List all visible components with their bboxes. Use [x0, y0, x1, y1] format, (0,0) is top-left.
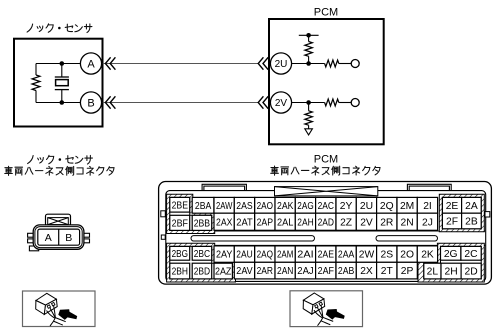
PCM connector inner shell [166, 191, 486, 282]
pin 2BF [170, 215, 190, 230]
connector chevrons on wire B, sensor side [105, 96, 110, 108]
knock sensor connector photo box [23, 291, 96, 327]
svg-text:2AM: 2AM [277, 250, 293, 261]
wire: knock sensor internal bottom [36, 102, 80, 104]
pin 2M [397, 197, 417, 213]
pin 2E [442, 197, 461, 213]
pin 2AL [275, 213, 295, 230]
svg-text:2B: 2B [465, 217, 478, 228]
pull-up resistor (2U net) [305, 42, 312, 57]
wire: knock sensor internal left leg [35, 64, 37, 103]
svg-text:2I: 2I [423, 201, 432, 212]
pin 2AJ [295, 262, 315, 279]
svg-text:2S: 2S [380, 250, 393, 261]
svg-text:2AY: 2AY [216, 250, 233, 261]
wire A (knock sensor A to PCM 2U) [103, 63, 258, 65]
svg-text:2P: 2P [401, 266, 414, 277]
svg-text:2U: 2U [275, 59, 288, 70]
svg-text:2AP: 2AP [257, 217, 274, 228]
knock sensor harness connector: bottom foot [29, 246, 38, 251]
svg-text:2AQ: 2AQ [257, 250, 273, 261]
svg-text:2AX: 2AX [216, 217, 233, 228]
pin 2B [462, 213, 482, 229]
knock sensor title text [27, 24, 92, 33]
pin 2BC [192, 246, 212, 260]
hatched keying block B (around pins 2E/2A/2F/2B) [439, 194, 484, 231]
pin 2AW [214, 197, 234, 213]
pin 2AM [275, 246, 295, 262]
svg-text:2AR: 2AR [257, 266, 273, 277]
series resistor on 2U net [325, 60, 339, 67]
wire: pull-up resistor stubs [308, 35, 310, 63]
svg-text:PCM: PCM [314, 6, 338, 18]
wire: piezo branch [61, 64, 63, 103]
pin 2P [397, 262, 417, 279]
cavity divider [58, 229, 60, 245]
svg-text:2G: 2G [444, 249, 458, 260]
connector removal icon (PCM) [303, 293, 333, 326]
svg-text:2A: 2A [465, 201, 478, 212]
pin 2C [461, 246, 481, 260]
pin 2Y [336, 197, 356, 213]
connector chevrons on wire A, sensor side [105, 57, 110, 69]
svg-text:2BD: 2BD [194, 267, 210, 278]
pin 2AV [234, 262, 254, 279]
pin 2BD [192, 263, 212, 279]
svg-text:PCM: PCM [314, 153, 338, 165]
svg-text:2V: 2V [360, 217, 373, 228]
pin 2AF [316, 262, 336, 279]
power rail junction dot [306, 33, 311, 38]
svg-text:2AT: 2AT [236, 217, 253, 228]
cavity band slot right [376, 236, 438, 241]
pin 2AB [336, 262, 356, 279]
svg-text:2F: 2F [446, 217, 458, 228]
svg-text:2AO: 2AO [257, 201, 273, 212]
PCM pin 2U [270, 53, 291, 74]
svg-text:2Z: 2Z [340, 217, 352, 228]
svg-text:2X: 2X [360, 266, 373, 277]
svg-text:2U: 2U [360, 201, 373, 212]
PCM connector center key (crossed) [275, 187, 378, 196]
svg-text:2N: 2N [401, 217, 414, 228]
pin 2H [441, 263, 461, 279]
pin 2Z [336, 213, 356, 230]
pin 2AI [295, 246, 315, 262]
pin 2AU [234, 246, 254, 262]
open terminal circle (2U net) [351, 60, 359, 68]
pin 2W [356, 246, 376, 262]
hatched keying block D (around pins 2G/2C/2L/2H/2D) [418, 243, 484, 282]
pin 2N [397, 213, 417, 230]
svg-text:2BA: 2BA [195, 201, 212, 212]
piezoelectric element [55, 77, 69, 90]
pin 2AE [316, 246, 336, 262]
node dot on 2V net [306, 100, 311, 105]
node dot on 2U net [306, 61, 311, 66]
pin 2L [424, 263, 441, 279]
svg-text:2J: 2J [422, 217, 433, 228]
pin 2AR [255, 262, 275, 279]
pin 2AY [214, 246, 234, 262]
pin 2A [462, 197, 482, 213]
PCM connector left edge notches [161, 211, 166, 240]
pin 2AS [234, 197, 254, 213]
svg-text:2AI: 2AI [297, 250, 313, 261]
junction dot top [60, 61, 65, 66]
pin 2O [397, 246, 417, 262]
svg-text:2BH: 2BH [172, 267, 188, 278]
wire: knock sensor internal top [36, 63, 80, 65]
pin 2AC [316, 197, 336, 213]
svg-text:2AB: 2AB [338, 266, 355, 277]
svg-text:2C: 2C [464, 249, 478, 260]
svg-text:2O: 2O [400, 250, 414, 261]
pin 2K [417, 246, 437, 262]
svg-text:2AU: 2AU [236, 250, 252, 261]
svg-text:2BC: 2BC [194, 249, 211, 260]
PCM connector photo box [290, 291, 363, 327]
svg-text:B: B [87, 97, 94, 109]
knock sensor harness connector body [33, 225, 84, 249]
pin 2AN [275, 262, 295, 279]
hatched keying block C (around pins 2BG/2BC/2BH/2BD/2AZ) [167, 243, 236, 282]
pin 2D [461, 263, 481, 279]
svg-text:2AK: 2AK [277, 201, 294, 212]
pin 2V [356, 213, 376, 230]
svg-text:2AH: 2AH [297, 217, 313, 228]
svg-text:B: B [65, 232, 72, 244]
knock sensor pin B [80, 92, 101, 113]
knock sensor harness cavity frame [38, 229, 80, 245]
knock sensor harness connector: left side tabs [28, 233, 34, 242]
svg-text:2BG: 2BG [172, 249, 188, 260]
pin 2BB [192, 215, 212, 230]
pin 2BH [170, 263, 190, 279]
PCM pin 2V [270, 92, 291, 113]
pin 2AZ [214, 263, 232, 279]
svg-text:2K: 2K [421, 250, 434, 261]
svg-text:2T: 2T [381, 266, 394, 277]
pin 2AX [214, 213, 234, 230]
svg-text:2AJ: 2AJ [297, 266, 313, 277]
svg-text:2M: 2M [400, 201, 414, 212]
series resistor on 2V net [325, 99, 339, 106]
wire B (knock sensor B to PCM 2V) [103, 102, 258, 104]
svg-text:2AA: 2AA [338, 250, 355, 261]
knock sensor pin A [80, 53, 101, 74]
pin 2T [377, 262, 397, 279]
wire: 2V node to ground resistor [308, 103, 310, 129]
pin 2BE [170, 197, 190, 212]
svg-text:2AC: 2AC [318, 201, 335, 212]
svg-text:A: A [87, 58, 95, 70]
PCM connector right edge notch [485, 212, 490, 217]
pin 2R [377, 213, 397, 230]
knock sensor box [14, 39, 103, 127]
resistor (knock sensor internal) [32, 75, 40, 91]
svg-text:2L: 2L [427, 267, 439, 278]
connector chevrons on wire B, PCM side [258, 96, 263, 108]
wire: resistor to terminal 2U [339, 63, 351, 65]
wire: 2V to node [292, 102, 325, 104]
hatched keying block A (around pins 2BE/2BF/2BB) [167, 194, 215, 233]
pin 2I [417, 197, 437, 213]
svg-text:2AD: 2AD [318, 217, 334, 228]
pin 2BG [170, 246, 190, 260]
junction dot bottom [60, 100, 65, 105]
knock sensor harness connector: right side tabs [83, 233, 90, 242]
PCM connector outer shell [159, 182, 492, 285]
PCM vehicle harness side connector label [271, 166, 380, 175]
svg-text:2R: 2R [380, 217, 393, 228]
svg-text:2AS: 2AS [236, 201, 253, 212]
ground symbol [305, 129, 313, 135]
wire: 2U to node [292, 63, 325, 65]
svg-text:2AG: 2AG [297, 201, 313, 212]
pin 2BA [192, 197, 214, 213]
pin 2AD [316, 213, 336, 230]
pin 2AK [275, 197, 295, 213]
svg-text:2V: 2V [275, 98, 288, 109]
PCM connector top tab left [202, 184, 246, 191]
pin 2X [356, 262, 376, 279]
pin 2AH [295, 213, 315, 230]
pin 2AO [255, 197, 275, 213]
svg-text:2AV: 2AV [236, 266, 253, 277]
PCM connector top tab right [407, 184, 451, 191]
svg-text:2Y: 2Y [340, 201, 353, 212]
cavity band divider lines [166, 231, 485, 245]
resistor to ground (2V net) [305, 111, 312, 125]
pin 2AQ [255, 246, 275, 262]
svg-text:2AZ: 2AZ [215, 267, 231, 278]
svg-text:2BB: 2BB [194, 219, 211, 230]
svg-text:2AW: 2AW [216, 201, 233, 212]
knock sensor harness label line 1 [28, 155, 93, 164]
power rail bar [299, 34, 319, 36]
svg-text:2E: 2E [446, 201, 459, 212]
pin 2AA [336, 246, 356, 262]
svg-text:2AE: 2AE [318, 250, 335, 261]
svg-text:2BF: 2BF [172, 219, 188, 230]
svg-text:A: A [45, 232, 52, 244]
svg-text:2H: 2H [445, 267, 458, 278]
connector removal icon (knock sensor) [36, 293, 66, 326]
svg-text:2W: 2W [359, 250, 375, 261]
open terminal circle (2V net) [351, 99, 359, 107]
svg-text:2AF: 2AF [318, 266, 334, 277]
cavity band slot left [191, 236, 315, 241]
pin 2AG [295, 197, 315, 213]
pin 2S [377, 246, 397, 262]
svg-text:2AL: 2AL [277, 217, 294, 228]
svg-text:2Q: 2Q [380, 201, 394, 212]
pin 2AP [255, 213, 275, 230]
vehicle harness side connector label line 1b [5, 166, 114, 175]
pin 2J [417, 213, 437, 230]
svg-text:2AN: 2AN [277, 266, 293, 277]
pin 2F [442, 213, 461, 229]
svg-text:2BE: 2BE [172, 200, 189, 211]
PCM box [269, 19, 384, 144]
pin 2U [356, 197, 376, 213]
wire: resistor to terminal 2V [339, 102, 351, 104]
pin 2AT [234, 213, 254, 230]
svg-text:2D: 2D [465, 267, 478, 278]
connector chevrons on wire A, PCM side [258, 57, 263, 69]
pin 2G [441, 246, 461, 260]
knock sensor harness connector: lock tab with X [46, 214, 71, 226]
pin 2Q [377, 197, 397, 213]
